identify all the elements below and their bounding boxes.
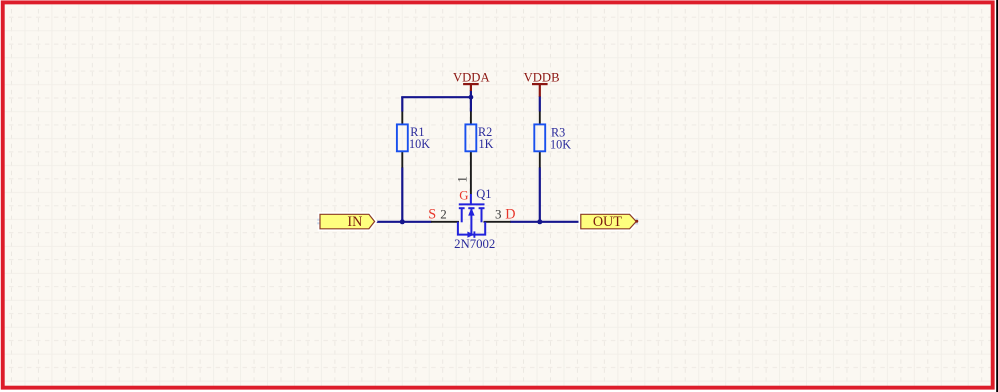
svg-text:10K: 10K <box>409 137 430 151</box>
svg-text:IN: IN <box>347 214 362 230</box>
pin R1 bottom <box>401 151 403 167</box>
svg-text:2N7002: 2N7002 <box>454 237 495 251</box>
right window edge black strip <box>996 0 998 392</box>
svg-text:2: 2 <box>440 206 447 221</box>
wire R1 top to VDDA node horizontal <box>401 96 471 98</box>
svg-text:Q1: Q1 <box>476 187 491 201</box>
svg-text:VDDA: VDDA <box>453 71 490 85</box>
svg-text:1: 1 <box>454 176 469 183</box>
channel tick center <box>468 207 474 209</box>
source contact vertical <box>461 208 463 222</box>
junction dot at R1/main net <box>400 219 405 224</box>
svg-text:D: D <box>505 207 515 223</box>
channel tick right <box>479 207 485 209</box>
pin R3 top <box>539 111 541 124</box>
svg-text:3: 3 <box>495 206 502 221</box>
svg-text:VDDB: VDDB <box>524 71 560 85</box>
OUT tip light blue marker <box>635 218 638 220</box>
gate lead <box>470 194 472 204</box>
bulk contact vertical <box>470 208 472 234</box>
pin Q1 source 2 <box>431 221 459 223</box>
pin R3 bottom <box>539 151 541 167</box>
bulk arrow <box>468 208 474 216</box>
svg-text:OUT: OUT <box>593 214 622 230</box>
svg-text:S: S <box>428 207 436 223</box>
body diode triangle <box>467 232 474 238</box>
pin R1 top <box>401 112 403 125</box>
svg-text:G: G <box>459 189 468 203</box>
channel tick left <box>459 207 465 209</box>
pin R2 bottom + Q1 gate pin 1 <box>470 151 472 194</box>
wire Q1 drain to OUT <box>510 221 581 223</box>
OUT tip red dot <box>635 220 638 223</box>
drain contact vertical <box>481 208 483 222</box>
wire VDDA stem lower <box>470 91 472 98</box>
wire VDDA node to R2 top <box>470 97 472 111</box>
svg-text:10K: 10K <box>550 137 571 151</box>
body diode loop <box>458 222 485 235</box>
junction dot at VDDA node <box>469 95 474 100</box>
wire R1 top vertical <box>401 97 403 111</box>
pin R2 top <box>470 111 472 124</box>
pin Q1 drain 3 <box>484 221 511 223</box>
wire VDDB stem to R3 top <box>539 96 541 112</box>
wire IN to Q1 source <box>375 221 432 223</box>
wire R3 bottom to main net <box>539 167 541 223</box>
wire R1 bottom to main net <box>401 167 403 223</box>
gate bar <box>459 203 485 205</box>
junction dot at R3/main net <box>537 219 542 224</box>
IN left-edge light blue marker <box>317 219 322 221</box>
body diode cathode bar <box>473 231 475 237</box>
svg-text:1K: 1K <box>479 137 494 151</box>
